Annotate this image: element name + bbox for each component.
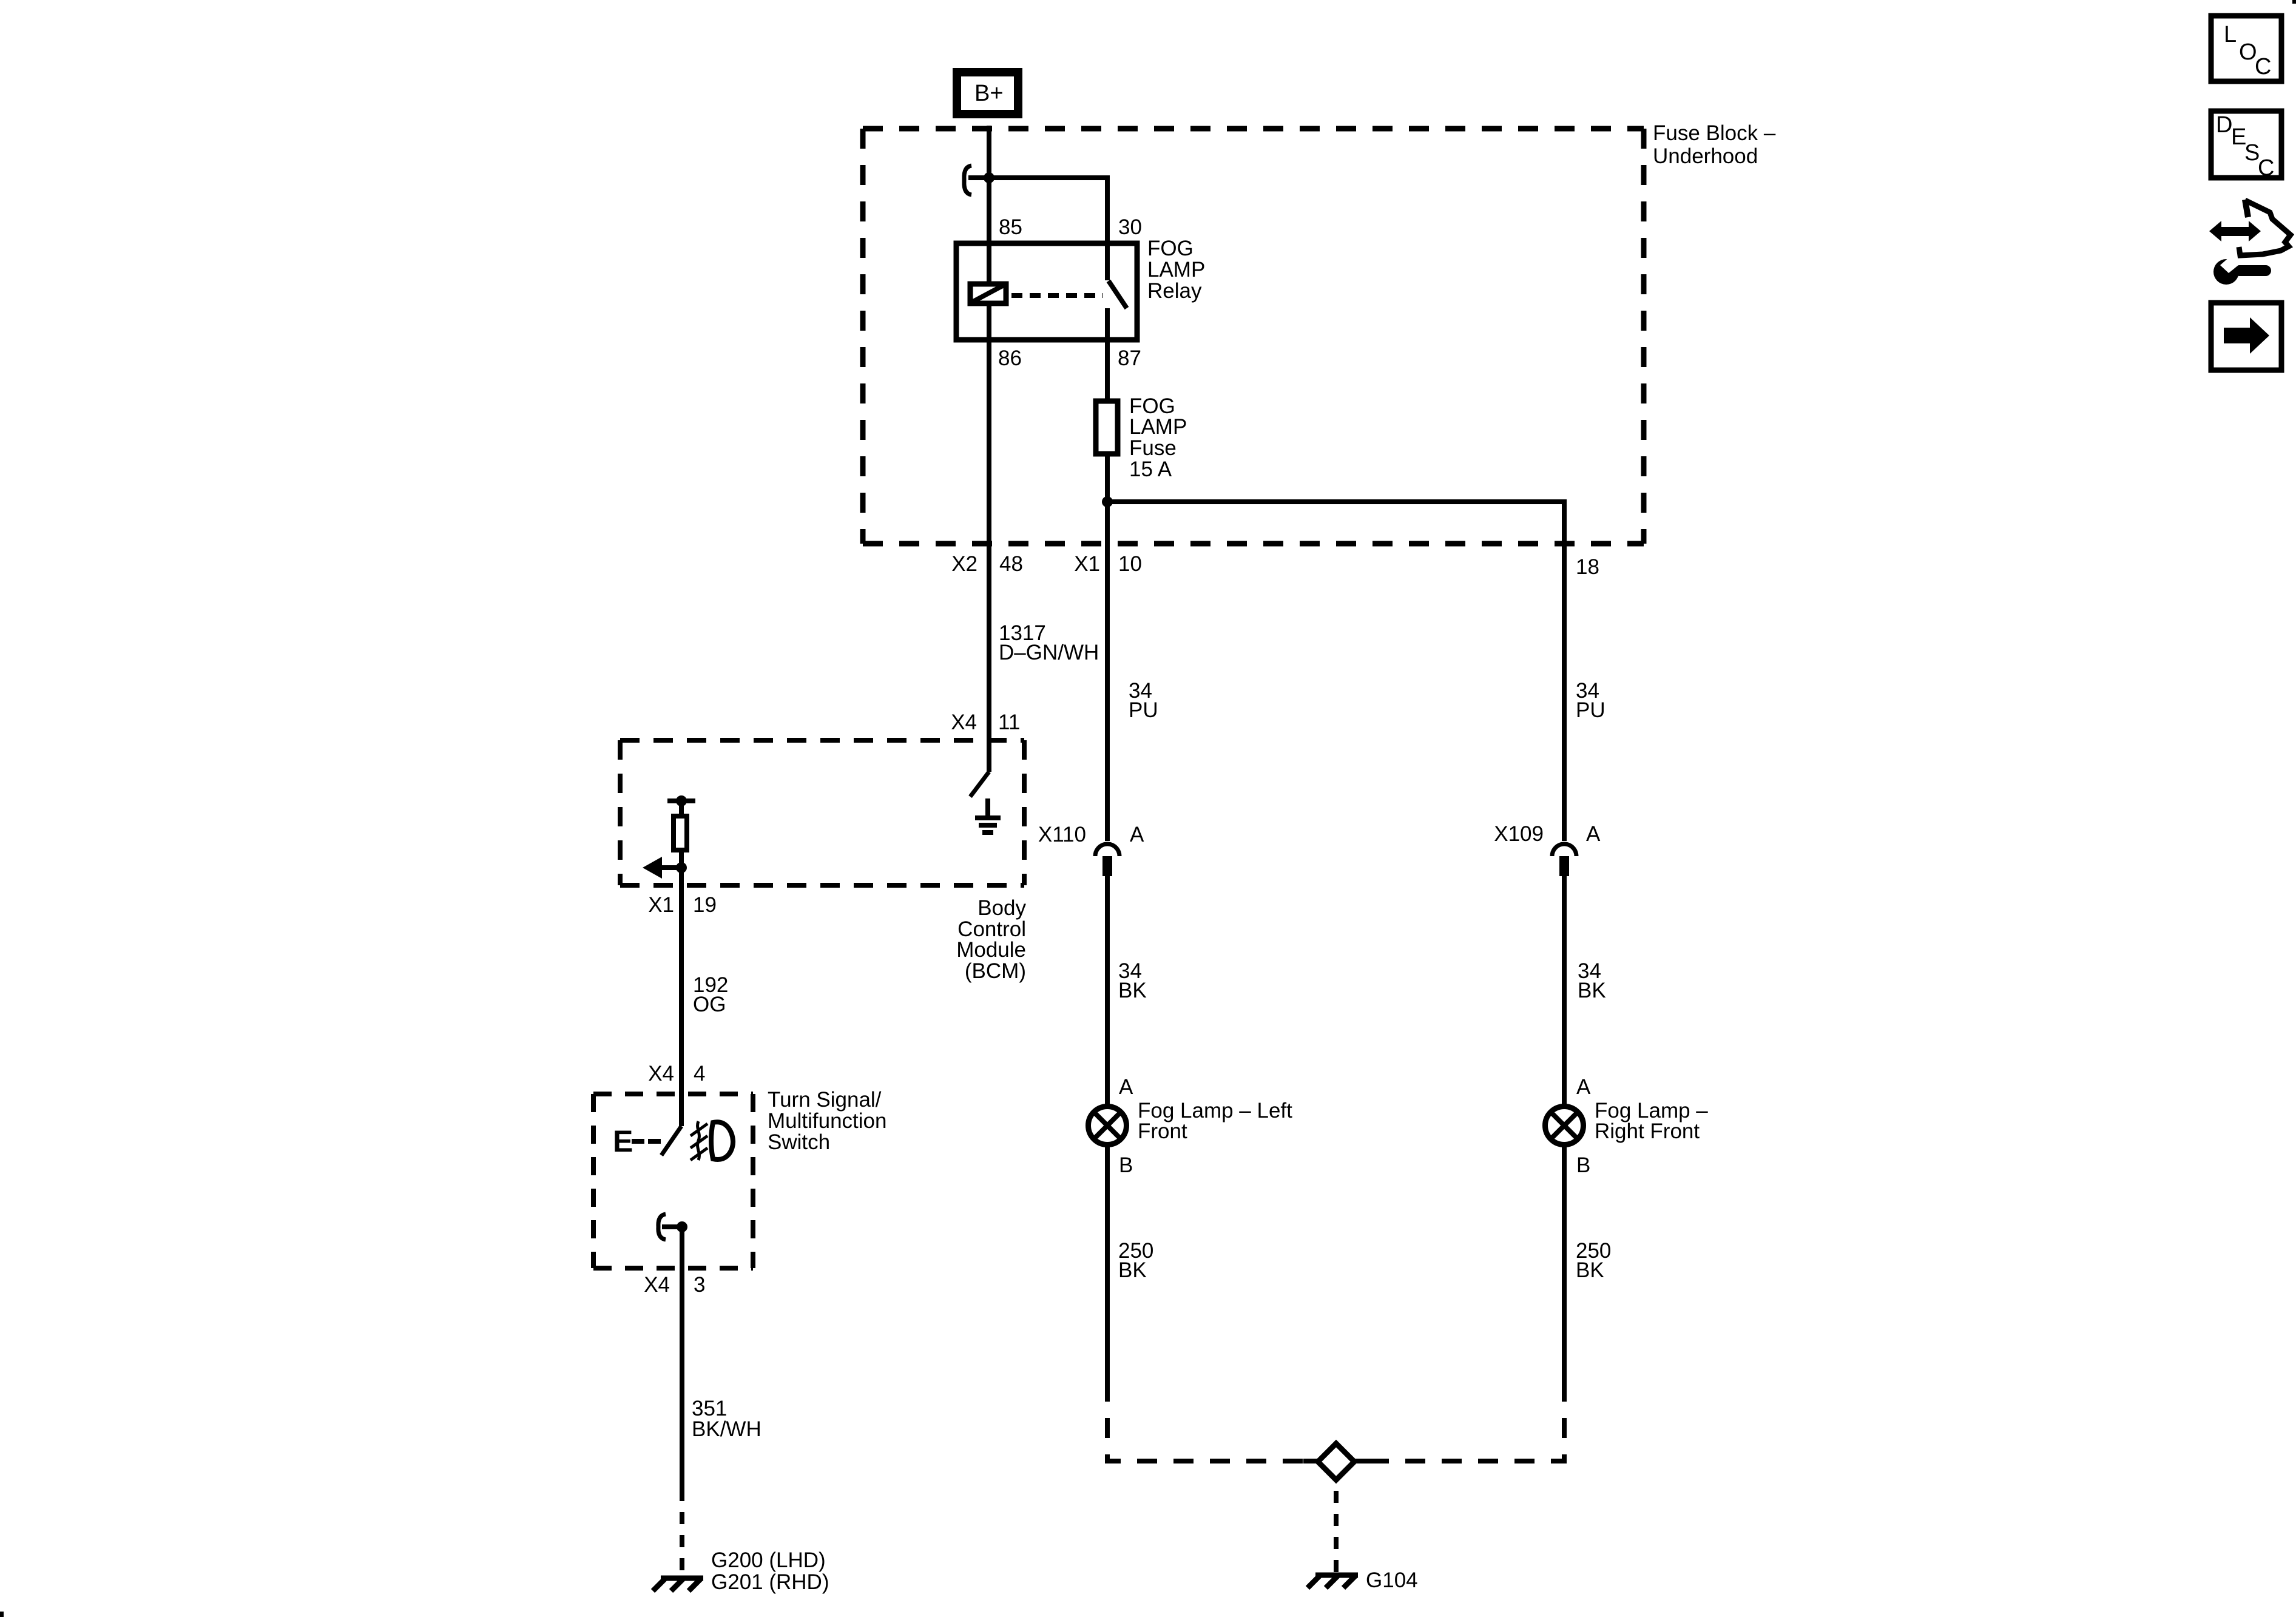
svg-text:87: 87	[1118, 346, 1141, 370]
wire left lamp down	[1105, 1146, 1110, 1382]
page corner tick	[2292, 0, 2296, 4]
page corner dot	[0, 1612, 4, 1617]
svg-text:19: 19	[693, 893, 717, 917]
svg-text:48: 48	[999, 552, 1023, 576]
svg-text:Underhood: Underhood	[1653, 144, 1758, 168]
svg-text:Fuse Block –: Fuse Block –	[1653, 121, 1776, 145]
svg-text:10: 10	[1118, 552, 1142, 576]
svg-text:LAMP: LAMP	[1147, 258, 1205, 282]
label Turn Signal/ Multifunction Switch	[768, 1088, 886, 1154]
fog lamp pictograph lens	[711, 1122, 733, 1160]
svg-text:86: 86	[998, 346, 1022, 370]
wire label 34 PU left	[1129, 679, 1158, 722]
icon forward arrow box	[2211, 303, 2281, 370]
svg-text:X4: X4	[644, 1273, 670, 1297]
BCM internal ground	[975, 798, 1001, 832]
svg-text:(BCM): (BCM)	[965, 959, 1026, 983]
svg-text:Switch: Switch	[768, 1130, 830, 1154]
wire switch output down	[680, 1227, 684, 1489]
wire stub right of diamond	[1354, 1459, 1369, 1463]
feed curl symbol	[964, 166, 971, 195]
svg-text:A: A	[1586, 822, 1601, 846]
fog lamp relay box	[956, 243, 1137, 340]
wire relay pin 86 down to BCM	[987, 306, 991, 772]
icon service car nub	[2245, 200, 2248, 217]
svg-text:BK: BK	[1576, 1258, 1604, 1282]
ground G200/G201	[653, 1578, 703, 1591]
icon LOC box	[2211, 16, 2281, 81]
fog lamp pictograph beams	[690, 1121, 707, 1160]
svg-text:B+: B+	[974, 81, 1004, 106]
svg-text:X4: X4	[951, 711, 977, 734]
svg-text:B: B	[1576, 1153, 1590, 1177]
svg-text:D: D	[2216, 112, 2232, 138]
wire right lamp down	[1562, 1146, 1567, 1382]
wire X109 to right fog lamp	[1562, 876, 1567, 1106]
wire B+ down through junction into relay pin 85 / coil	[987, 126, 991, 282]
svg-text:E: E	[613, 1124, 633, 1158]
wire label 351 BK/WH	[692, 1397, 761, 1441]
wire X1-10 down to X110	[1105, 502, 1110, 841]
ground G104	[1308, 1575, 1358, 1588]
wire fuse to junction	[1105, 454, 1110, 544]
relay switch blade	[1109, 281, 1127, 308]
svg-text:Front: Front	[1138, 1119, 1187, 1143]
svg-text:X109: X109	[1494, 822, 1544, 846]
svg-text:A: A	[1119, 1075, 1133, 1099]
svg-text:Turn Signal/: Turn Signal/	[768, 1088, 882, 1112]
wire X110 to left fog lamp	[1105, 876, 1110, 1106]
BCM output arrow	[658, 865, 681, 870]
svg-text:C: C	[2258, 155, 2274, 181]
svg-text:LAMP: LAMP	[1129, 415, 1187, 439]
label Body Control Module (BCM)	[956, 896, 1026, 983]
node junction at B+ branch	[984, 172, 994, 183]
wire label 34 PU right	[1576, 679, 1606, 722]
label Fog Lamp - Left Front	[1138, 1099, 1292, 1143]
inline connector X109	[1552, 844, 1576, 856]
label FOG LAMP Fuse 15 A	[1129, 394, 1187, 481]
svg-text:30: 30	[1118, 215, 1142, 239]
wire branch to relay pin 30	[968, 178, 1107, 280]
BCM switch blade to ground	[970, 772, 989, 797]
label G200 (LHD) G201 (RHD)	[711, 1548, 829, 1594]
wire label 34 BK right	[1578, 959, 1606, 1002]
svg-text:OG: OG	[693, 993, 726, 1016]
label Fog Lamp - Right Front	[1595, 1099, 1708, 1143]
svg-text:Multifunction: Multifunction	[768, 1109, 886, 1133]
BCM driver bar	[667, 798, 695, 803]
svg-text:G104: G104	[1366, 1568, 1418, 1592]
svg-text:G200 (LHD): G200 (LHD)	[711, 1548, 826, 1572]
wire dashed to G200	[680, 1489, 684, 1574]
right fog lamp	[1545, 1107, 1584, 1145]
svg-text:85: 85	[999, 215, 1022, 239]
svg-text:4: 4	[694, 1062, 705, 1085]
svg-text:D–GN/WH: D–GN/WH	[999, 641, 1099, 664]
svg-text:A: A	[1130, 823, 1144, 846]
dashed ground wire right	[1359, 1382, 1564, 1461]
svg-text:Fuse: Fuse	[1129, 436, 1177, 460]
turn signal / multifunction switch dashed box	[593, 1094, 753, 1268]
svg-text:BK: BK	[1578, 979, 1606, 1002]
svg-text:11: 11	[998, 711, 1020, 734]
svg-text:BK/WH: BK/WH	[692, 1417, 761, 1441]
svg-text:PU: PU	[1576, 698, 1606, 722]
switch lower contact bar	[662, 1224, 682, 1229]
fuse FOG LAMP 15A	[1096, 401, 1118, 454]
svg-text:BK: BK	[1118, 1258, 1147, 1282]
svg-text:B: B	[1119, 1153, 1133, 1177]
svg-text:C: C	[2255, 54, 2271, 79]
svg-text:X1: X1	[1074, 552, 1100, 576]
wire BCM output to turn signal switch	[679, 868, 684, 1126]
svg-text:PU: PU	[1129, 698, 1158, 722]
node on driver bar	[676, 795, 687, 806]
wire relay pin 87 stub	[1105, 308, 1110, 399]
svg-text:X4: X4	[648, 1062, 674, 1085]
svg-text:FOG: FOG	[1147, 237, 1194, 260]
wire branch right to pin 18	[1107, 502, 1564, 544]
wire 18 down to X109	[1562, 502, 1567, 841]
icon service car outline	[2239, 200, 2291, 255]
svg-text:Right Front: Right Front	[1595, 1119, 1700, 1143]
node switch output	[677, 1221, 687, 1232]
svg-text:15 A: 15 A	[1129, 457, 1172, 481]
node BCM output junction	[676, 862, 687, 873]
svg-text:BK: BK	[1118, 979, 1147, 1002]
svg-text:X1: X1	[648, 893, 674, 917]
relay coil	[970, 284, 1006, 303]
svg-text:L: L	[2224, 22, 2237, 47]
wire label 34 BK left	[1118, 959, 1147, 1002]
dashed wire diamond to G104	[1334, 1491, 1339, 1573]
svg-text:18: 18	[1576, 555, 1599, 579]
switch lower contact curl	[658, 1214, 666, 1240]
left fog lamp	[1089, 1107, 1127, 1145]
wire label 192 OG	[693, 973, 728, 1016]
fuse block underhood dashed box	[863, 129, 1644, 544]
label FOG LAMP Relay	[1147, 237, 1205, 303]
svg-text:Module: Module	[956, 938, 1026, 962]
icon DESC box	[2211, 111, 2281, 181]
label Fuse Block - Underhood	[1653, 121, 1776, 168]
wire X2-48 BCM feed	[987, 544, 991, 772]
body control module dashed box	[620, 740, 1024, 885]
switch blade	[661, 1126, 681, 1155]
wire label 250 BK right	[1576, 1239, 1611, 1282]
icon service wrench	[2213, 257, 2266, 285]
svg-text:A: A	[1576, 1075, 1591, 1099]
BCM driver resistor	[679, 801, 684, 814]
node junction below fuse	[1102, 496, 1113, 507]
icon service double arrow	[2209, 221, 2261, 241]
wire stub left of diamond	[1303, 1459, 1318, 1463]
svg-text:3: 3	[694, 1273, 705, 1297]
relay actuation dashed link	[1011, 293, 1103, 298]
dashed ground wire left	[1107, 1382, 1313, 1461]
inline connector X110	[1095, 844, 1119, 856]
svg-text:X110: X110	[1038, 823, 1086, 846]
svg-text:Body: Body	[977, 896, 1026, 920]
svg-text:Relay: Relay	[1147, 279, 1202, 303]
wire label 250 BK left	[1118, 1239, 1153, 1282]
battery feed B+ box	[957, 72, 1018, 114]
svg-text:G201 (RHD): G201 (RHD)	[711, 1570, 829, 1594]
svg-text:X2: X2	[951, 552, 977, 576]
dashes from E	[632, 1139, 644, 1144]
wire label 1317 D-GN/WH	[999, 621, 1099, 664]
splice diamond	[1318, 1443, 1354, 1480]
